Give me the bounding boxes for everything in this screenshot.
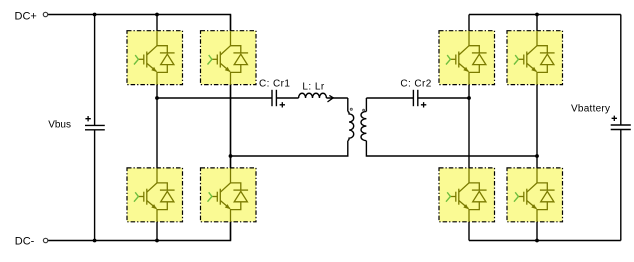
svg-text:C: Cr2: C: Cr2 [400, 79, 431, 90]
svg-text:DC+: DC+ [15, 11, 37, 23]
svg-text:Vbus: Vbus [48, 120, 71, 131]
svg-text:DC-: DC- [15, 235, 35, 247]
svg-text:L: Lr: L: Lr [302, 81, 324, 92]
svg-text:Vbattery: Vbattery [571, 104, 610, 115]
svg-text:C: Cr1: C: Cr1 [259, 79, 290, 90]
